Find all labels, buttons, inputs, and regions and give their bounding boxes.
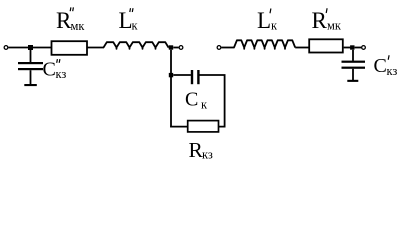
wire bottom-left of loop to Rкз [170, 126, 188, 128]
svg-text:кз: кз [387, 64, 398, 78]
label R"мк [56, 7, 85, 33]
wire Cк to right side of loop, down to bottom branch [200, 75, 225, 127]
svg-text:C: C [43, 59, 56, 81]
inductor L'к (6 arcs) [234, 40, 295, 49]
wire J2 to terminal T2 [173, 47, 178, 49]
svg-text:C: C [374, 55, 387, 77]
wire L'к to R'мк [295, 47, 309, 49]
svg-text:кз: кз [202, 148, 213, 162]
terminal T2 (right output of first circuit) [179, 46, 183, 50]
svg-text:C: C [185, 89, 198, 111]
svg-text:R: R [312, 8, 328, 33]
wire L"к to node J2 [169, 47, 173, 49]
node J2 (junction dot) [169, 45, 173, 49]
terminal T4 (right output of second circuit) [362, 46, 366, 50]
wire J3 to Cк [173, 74, 191, 76]
svg-text:L: L [257, 8, 271, 33]
node J1 (junction dot) [28, 45, 33, 50]
label C'кз [374, 55, 398, 78]
wire R'мк to node J4 [344, 47, 351, 49]
resistor R"мк [52, 41, 88, 55]
node J4 (junction dot) [350, 45, 354, 49]
inductor L"к (5 arcs) [104, 42, 169, 49]
label Rкз [189, 138, 213, 162]
label Cк [185, 89, 208, 112]
label C"кз [43, 59, 67, 82]
label L'к [257, 8, 278, 33]
wire R"мк to L"к [87, 47, 104, 49]
terminal T1 (left input of first circuit) [4, 46, 8, 50]
wire J4 to terminal T4 [355, 47, 362, 49]
svg-text:к: к [132, 19, 139, 33]
resistor Rкз (bottom branch of loop) [188, 121, 219, 132]
svg-text:к: к [201, 98, 208, 112]
svg-text:кз: кз [56, 67, 67, 81]
node J3 (tap of Cк branch) [169, 73, 173, 77]
wire T1 to node J1 [8, 47, 28, 49]
capacitor Cк (series in top branch of loop) [191, 70, 200, 84]
label R'мк [312, 8, 342, 33]
capacitor C'кз (shunt at J4) [342, 50, 366, 82]
capacitor C"кз (shunt at J1) [18, 50, 43, 86]
wire J1 to R"мк [33, 47, 52, 49]
wire J2 down left side of loop [170, 50, 172, 128]
wire T3 to L'к [221, 47, 234, 49]
terminal T3 (left input of second circuit) [217, 46, 221, 50]
resistor R'мк [309, 39, 343, 52]
svg-text:к: к [271, 19, 278, 33]
label L"к [119, 8, 139, 33]
svg-text:мк: мк [327, 19, 342, 33]
svg-text:мк: мк [71, 19, 86, 33]
